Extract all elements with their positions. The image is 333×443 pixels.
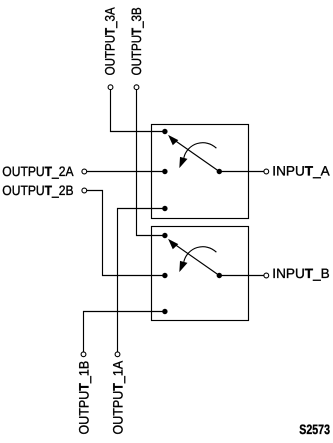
switch U2 rotation arc bbox=[184, 247, 217, 262]
svg-text:S2573: S2573 bbox=[299, 422, 330, 437]
terminal OUTPUT_3B bbox=[134, 85, 139, 90]
switch U2 rotation arc arrowhead bbox=[179, 261, 187, 272]
switch U2 wiper bbox=[176, 245, 220, 276]
switch U2 throw contact to OUTPUT_1B bbox=[162, 309, 167, 314]
svg-text:INPUT_B: INPUT_B bbox=[272, 266, 329, 281]
switch U1 throw contact to OUTPUT_3A bbox=[162, 129, 167, 134]
switch U1 rotation arc bbox=[184, 143, 217, 158]
terminal INPUT_A bbox=[264, 169, 269, 174]
svg-text:INPUT_A: INPUT_A bbox=[272, 164, 330, 179]
wire OUTPUT_2A bbox=[87, 171, 165, 173]
terminal INPUT_B bbox=[264, 273, 269, 278]
wire INPUT_B bbox=[219, 275, 264, 277]
wire OUTPUT_3B bbox=[137, 90, 165, 236]
terminal OUTPUT_3A bbox=[108, 85, 113, 90]
svg-text:OUTPUT_1A: OUTPUT_1A bbox=[110, 360, 125, 435]
wire INPUT_A bbox=[219, 171, 264, 173]
switch U1 rotation arc arrowhead bbox=[179, 157, 187, 168]
switch U2 pole contact INPUT_B bbox=[217, 273, 222, 278]
svg-text:OUTPUT_1B: OUTPUT_1B bbox=[76, 361, 91, 435]
wire OUTPUT_3A bbox=[111, 90, 165, 132]
svg-text:OUTPUT_2A: OUTPUT_2A bbox=[2, 164, 74, 179]
terminal OUTPUT_2A bbox=[82, 169, 87, 174]
switch U1 throw contact to OUTPUT_1A bbox=[162, 206, 167, 211]
switch box U2 bbox=[152, 227, 249, 321]
svg-text:OUTPUT_2B: OUTPUT_2B bbox=[2, 183, 73, 198]
terminal OUTPUT_1A bbox=[115, 352, 120, 357]
svg-text:OUTPUT_3B: OUTPUT_3B bbox=[129, 7, 144, 75]
svg-text:OUTPUT_3A: OUTPUT_3A bbox=[102, 7, 117, 76]
wire OUTPUT_1A bbox=[118, 209, 165, 352]
switch U2 throw contact to OUTPUT_3B bbox=[162, 233, 167, 238]
terminal OUTPUT_1B bbox=[81, 352, 86, 357]
switch box U1 bbox=[152, 125, 249, 219]
wire OUTPUT_2B bbox=[87, 191, 165, 276]
switch U2 throw contact to OUTPUT_2B bbox=[162, 273, 167, 278]
switch U1 wiper bbox=[176, 141, 220, 172]
terminal OUTPUT_2B bbox=[82, 188, 87, 193]
switch U1 pole contact INPUT_A bbox=[217, 169, 222, 174]
switch U1 throw contact to OUTPUT_2A bbox=[162, 169, 167, 174]
switch U2 wiper arrowhead bbox=[168, 239, 178, 249]
wire OUTPUT_1B bbox=[84, 312, 165, 352]
switch U1 wiper arrowhead bbox=[168, 135, 178, 145]
